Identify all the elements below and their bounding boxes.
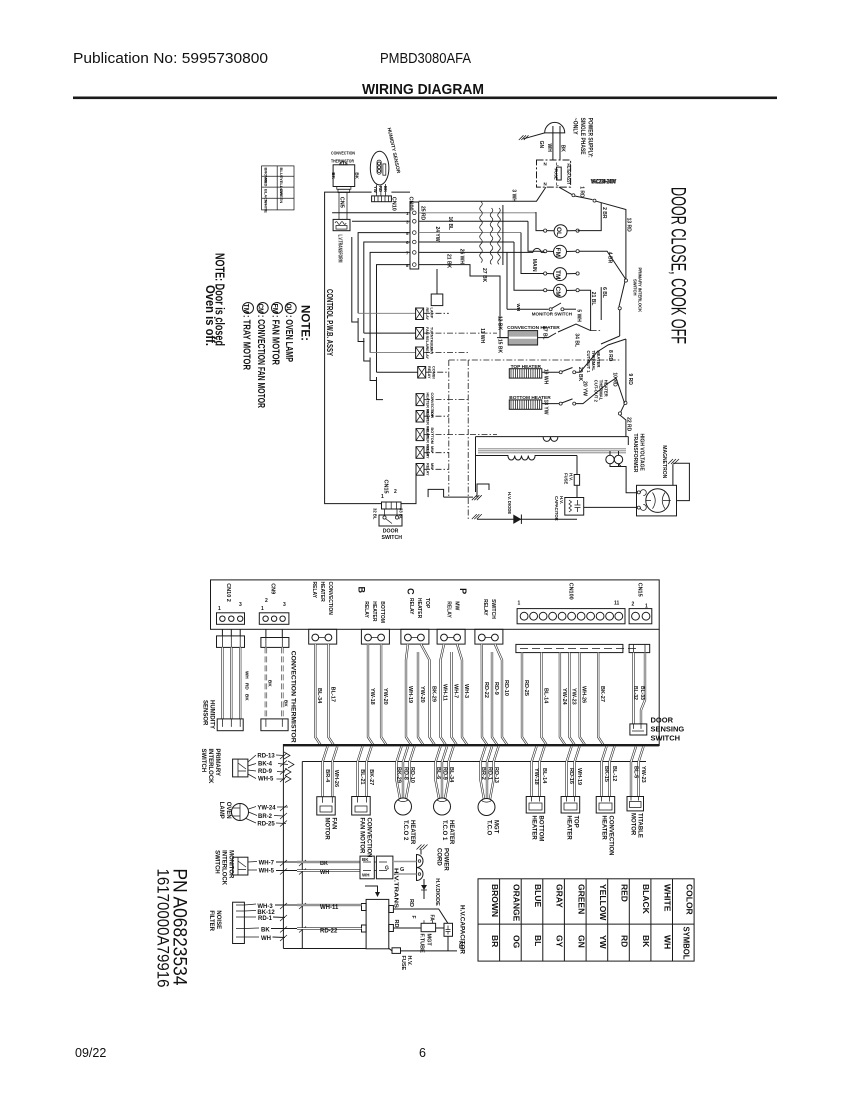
monitor switch (507, 303, 582, 322)
svg-text:Oven is off.: Oven is off. (203, 285, 217, 346)
hv capacitor lower (444, 923, 453, 936)
svg-text:RED: RED (620, 884, 630, 902)
svg-text:WH-26: WH-26 (333, 770, 339, 787)
svg-text:WH-5: WH-5 (258, 777, 274, 783)
oven lamp (218, 802, 288, 828)
svg-text:FA: FA (429, 915, 435, 922)
svg-text:WH-7: WH-7 (453, 684, 459, 698)
svg-text:N: N (544, 182, 547, 187)
relay X boxes right edge (416, 308, 436, 476)
below-bus feeds: fan motor (323, 746, 338, 796)
svg-text:LAMP: LAMP (218, 802, 224, 819)
svg-text:CUT-OUT 1: CUT-OUT 1 (586, 351, 591, 374)
relay pin box 4 (437, 629, 465, 644)
svg-text:24 YW: 24 YW (434, 227, 440, 242)
svg-text:WH-19: WH-19 (407, 686, 413, 703)
svg-text:09/22: 09/22 (75, 1046, 106, 1060)
door sensing header (629, 644, 650, 652)
svg-text:NOTE:: NOTE: (299, 305, 313, 341)
svg-text:CORD: CORD (436, 848, 442, 866)
svg-text:RD-9: RD-9 (258, 769, 273, 775)
svg-text:BK-15: BK-15 (603, 766, 609, 782)
svg-text:1: 1 (218, 606, 221, 612)
svg-text:RD-13: RD-13 (257, 754, 275, 760)
svg-text:YELLOW: YELLOW (598, 884, 608, 921)
bottom heater feeds (532, 746, 545, 796)
wire CN00 pin1 left (332, 212, 410, 214)
svg-text:FM: FM (554, 248, 561, 257)
CN15 connector lower (629, 583, 652, 624)
mgt tco feeds (481, 746, 499, 799)
svg-text:RD-22: RD-22 (483, 682, 489, 698)
svg-text:T.C.O: T.C.O (486, 820, 492, 836)
svg-text:16170000A79916: 16170000A79916 (154, 869, 173, 988)
svg-text:G: G (385, 866, 389, 872)
svg-text:MAGNETRON: MAGNETRON (661, 445, 667, 478)
svg-text:GY: GY (555, 935, 565, 948)
svg-text:CONVECTION HEATER: CONVECTION HEATER (507, 325, 560, 331)
svg-text:BK: BK (320, 861, 328, 867)
CN100 pin header bar (516, 644, 636, 652)
svg-text:YW-18: YW-18 (369, 688, 375, 705)
svg-text:2: 2 (632, 602, 635, 608)
svg-text:RD-13: RD-13 (493, 767, 499, 783)
svg-text:18 YW: 18 YW (543, 400, 549, 415)
svg-text:RELAY: RELAY (446, 601, 452, 618)
svg-text:GN: GN (577, 935, 587, 948)
filter assy box (537, 160, 572, 187)
humidity sensor bottom box (217, 719, 243, 731)
svg-text:8: 8 (406, 263, 409, 268)
svg-text:TM: TM (554, 270, 561, 279)
relay coil wires (358, 313, 416, 352)
power cord plug (417, 855, 424, 881)
svg-text:7: 7 (406, 251, 409, 256)
hv fuse lower (389, 936, 457, 951)
choke coils on supply wires (419, 202, 546, 338)
svg-text:RD-22: RD-22 (320, 929, 338, 935)
svg-text:26 WH: 26 WH (459, 249, 465, 265)
svg-text:BL-32: BL-32 (632, 686, 638, 700)
svg-text:1: 1 (406, 211, 409, 216)
svg-text:RD-25: RD-25 (523, 680, 529, 696)
svg-text:BK: BK (331, 172, 336, 179)
svg-text:SWITCH: SWITCH (214, 850, 220, 874)
chassis ground at plug (519, 133, 545, 149)
svg-text:CN5: CN5 (339, 197, 345, 208)
svg-text:BROWN: BROWN (490, 884, 500, 917)
power plug (545, 122, 565, 160)
svg-text:RD: RD (408, 899, 414, 907)
svg-text:15 BK: 15 BK (497, 339, 503, 354)
svg-text:RD: RD (245, 683, 250, 690)
svg-text:WHITE: WHITE (663, 884, 673, 912)
top heater relay (416, 410, 434, 439)
combi relay (418, 366, 436, 379)
svg-text:5: 5 (406, 231, 409, 236)
L.V. transformer (333, 219, 350, 262)
svg-text:VAC230-240V: VAC230-240V (591, 180, 616, 186)
svg-text:3: 3 (406, 220, 409, 225)
terminal box BK WH (360, 856, 374, 879)
svg-text:RELAY: RELAY (363, 601, 369, 618)
svg-text:MOTOR: MOTOR (630, 813, 636, 836)
turntable fan relay (416, 327, 434, 350)
svg-text:H.V.DIODE: H.V.DIODE (434, 878, 440, 906)
wire filter to left bus 3 WH (419, 187, 546, 201)
hv fuse (564, 456, 580, 498)
svg-text:WH: WH (261, 936, 271, 942)
oven lamp circle OL (544, 225, 580, 238)
svg-text:L.V.TRANSFORM: L.V.TRANSFORM (337, 235, 343, 263)
svg-text:CN10 2: CN10 2 (225, 583, 231, 602)
svg-text:CONVECTION THERMISTOR: CONVECTION THERMISTOR (290, 651, 297, 743)
svg-text:3: 3 (239, 602, 242, 608)
thermistor top connector (261, 638, 289, 648)
thermistor bottom box (261, 719, 288, 731)
svg-text:16 BL: 16 BL (447, 217, 453, 231)
svg-text:BL-6: BL-6 (435, 767, 441, 779)
NOTE: Door is closed / Oven is off. (203, 253, 227, 346)
bottom section (211, 580, 660, 653)
svg-text:BK: BK (268, 680, 273, 687)
svg-text:OL: OL (285, 304, 294, 313)
svg-text:YW-23: YW-23 (570, 688, 576, 705)
svg-text:12 BK: 12 BK (497, 316, 503, 331)
svg-text:YW: YW (598, 935, 608, 950)
svg-text:TM: TM (242, 304, 251, 314)
svg-text:P: P (458, 588, 468, 594)
wh-11 rd-22 wires (297, 905, 362, 929)
svg-text:BK-27: BK-27 (599, 686, 605, 702)
svg-text:INTERLOCK: INTERLOCK (221, 850, 227, 886)
svg-text:6: 6 (419, 1046, 426, 1060)
svg-text:13 RD: 13 RD (626, 218, 632, 233)
hv trans box (366, 899, 389, 948)
svg-text:RD: RD (620, 935, 630, 947)
footer (75, 1046, 426, 1060)
heater tco 2 (395, 798, 412, 815)
svg-text:TOP: TOP (424, 598, 430, 609)
inner verticals control box (436, 269, 438, 294)
svg-text:1: 1 (381, 494, 384, 500)
relay pin box 1 (309, 629, 337, 644)
svg-text:F.TUBE: F.TUBE (419, 934, 425, 954)
CN00 connector strip (406, 197, 419, 270)
door sensing wires (634, 653, 646, 724)
svg-text:RD-1: RD-1 (258, 916, 273, 922)
hv wiring lower (393, 927, 444, 929)
svg-text:DOOR: DOOR (383, 529, 399, 535)
svg-text:FM: FM (271, 304, 280, 314)
svg-text:CN100: CN100 (568, 583, 574, 600)
svg-text:22 RD: 22 RD (626, 417, 632, 432)
svg-text:BK: BK (362, 857, 369, 862)
svg-text:WH: WH (516, 304, 521, 312)
junction to transformer (618, 339, 631, 437)
svg-text:BK: BK (284, 700, 289, 707)
grounds near hv (428, 484, 489, 519)
svg-text:OG: OG (512, 935, 522, 949)
svg-text:WH-3: WH-3 (463, 684, 469, 698)
legend TM tray motor (243, 303, 254, 314)
svg-text:CONVECTION: CONVECTION (327, 582, 333, 616)
rd wire to capacitor (393, 909, 448, 923)
CN100 wires down (315, 644, 320, 744)
svg-text:YW-24: YW-24 (561, 688, 567, 706)
bottom heater relay (416, 428, 434, 457)
svg-text:CAPACITOR: CAPACITOR (554, 496, 559, 521)
svg-text:MONITOR SWITCH: MONITOR SWITCH (532, 311, 572, 316)
lamp relay (416, 308, 434, 321)
svg-text:RD-8: RD-8 (403, 767, 409, 780)
svg-text:RD-16: RD-16 (568, 768, 574, 784)
dash-dot cavity lines (448, 360, 450, 497)
svg-text:BL-34: BL-34 (448, 767, 454, 783)
hv capacitor (554, 496, 584, 521)
svg-text:N: N (544, 162, 547, 167)
svg-text:BL-34: BL-34 (316, 688, 322, 704)
svg-text:1 RD: 1 RD (579, 186, 585, 198)
svg-text:POWER: POWER (443, 848, 449, 871)
door switch (373, 508, 404, 541)
door sensing switch (630, 724, 647, 735)
mgt f.tube (421, 923, 436, 931)
svg-text:WH-7: WH-7 (259, 860, 275, 866)
svg-text:RD-10: RD-10 (503, 680, 509, 696)
svg-text:WIRING DIAGRAM: WIRING DIAGRAM (362, 81, 484, 98)
svg-text:G: G (400, 867, 404, 873)
svg-text:GREEN: GREEN (577, 884, 587, 914)
fan motor circle FM (544, 245, 626, 279)
svg-text:19 WH: 19 WH (543, 369, 549, 385)
svg-text:BR: BR (490, 935, 500, 947)
svg-text:RD-1: RD-1 (487, 767, 493, 780)
svg-text:27 BK: 27 BK (481, 268, 487, 283)
svg-text:L: L (556, 162, 559, 167)
svg-text:HUMIDITY: HUMIDITY (209, 700, 215, 729)
svg-text:6: 6 (406, 240, 409, 245)
svg-text:RD-25: RD-25 (257, 822, 275, 828)
svg-text:CN15: CN15 (383, 480, 389, 494)
svg-text:CM: CM (554, 287, 561, 297)
svg-text:NOISE: NOISE (215, 910, 221, 929)
svg-text:BOTTOM: BOTTOM (538, 816, 544, 842)
svg-text:21 BL: 21 BL (590, 292, 596, 306)
svg-text:FAN: FAN (331, 818, 337, 830)
relay pin box 3 (401, 629, 429, 644)
svg-text:BOTTOM: BOTTOM (379, 601, 385, 623)
svg-text:CONTROL P.W.B. ASSY: CONTROL P.W.B. ASSY (325, 289, 334, 356)
svg-text:6 BL: 6 BL (601, 287, 607, 298)
svg-text:WH: WH (663, 935, 673, 949)
svg-text:BK: BK (355, 172, 360, 179)
svg-text:SYMBOL: SYMBOL (682, 927, 692, 960)
convection heater lower (596, 797, 615, 814)
heater tco1 feeds (436, 746, 454, 798)
control PWB assy box outline (325, 192, 416, 504)
svg-text:YW-18: YW-18 (533, 768, 539, 785)
mw relay 2 (416, 463, 434, 476)
svg-text:1: 1 (518, 601, 521, 607)
svg-text:HEATER: HEATER (601, 816, 607, 841)
CN100 connector (517, 583, 625, 624)
svg-text:WH: WH (245, 671, 250, 679)
21 BL / 6 BL wires (579, 287, 607, 331)
top schematic (203, 127, 443, 541)
thermistor wires (266, 647, 282, 719)
svg-text:HIGH VOLTAGE: HIGH VOLTAGE (639, 434, 645, 472)
relay pin box 5 (475, 629, 503, 644)
svg-text:5 WH: 5 WH (576, 309, 582, 322)
svg-text:YW-24: YW-24 (257, 806, 276, 812)
svg-text:FUSE: FUSE (400, 956, 406, 971)
svg-text:BL-21: BL-21 (359, 769, 365, 784)
svg-text:CONVECTION: CONVECTION (366, 818, 372, 858)
convection heater (479, 316, 620, 354)
svg-text:33 BL: 33 BL (399, 508, 404, 520)
svg-text:BL: BL (533, 935, 543, 946)
svg-text:2: 2 (265, 598, 268, 604)
svg-text:BR-2: BR-2 (480, 767, 486, 780)
svg-text:YW-23: YW-23 (640, 766, 646, 783)
heater tco2 feeds (397, 746, 415, 798)
svg-text:25 RD: 25 RD (420, 206, 426, 221)
svg-text:CN15: CN15 (637, 583, 643, 597)
svg-text:1: 1 (261, 606, 264, 612)
svg-text:BK: BK (560, 145, 566, 153)
main pcb connector box (211, 580, 660, 629)
svg-text:WH-3: WH-3 (257, 904, 273, 910)
svg-text:SWITCH: SWITCH (490, 599, 496, 619)
svg-text:RELAY: RELAY (408, 598, 414, 615)
svg-text:CN10: CN10 (391, 197, 397, 211)
svg-text:HEATER: HEATER (371, 601, 377, 622)
svg-text:HEATER: HEATER (531, 816, 537, 841)
svg-text:10 RD: 10 RD (612, 372, 618, 387)
fan motor (317, 797, 335, 815)
svg-text:RD-10: RD-10 (409, 767, 415, 783)
svg-text:SENSOR: SENSOR (202, 700, 208, 726)
svg-text:H.V. DIODE: H.V. DIODE (507, 492, 512, 514)
svg-text:34 BL: 34 BL (574, 333, 580, 347)
svg-text:MGT: MGT (426, 934, 432, 947)
hv wiring (576, 492, 578, 498)
svg-text:11: 11 (614, 601, 620, 607)
switch relay label (482, 599, 496, 619)
svg-text:BK: BK (261, 928, 270, 934)
svg-text:DOOR CLOSE, COOK OFF: DOOR CLOSE, COOK OFF (667, 187, 690, 344)
svg-text:FAN RELAY: FAN RELAY (425, 327, 429, 349)
svg-text:BK-29: BK-29 (396, 767, 402, 783)
svg-text:BL-33: BL-33 (639, 686, 645, 700)
conv fan motor feeds (358, 746, 372, 796)
svg-text:INTERLOCK: INTERLOCK (207, 749, 213, 785)
2 BR wire to OL (578, 203, 607, 231)
svg-text:FILTER ASSY: FILTER ASSY (565, 164, 571, 185)
svg-text:MW: MW (430, 446, 434, 453)
svg-text:RED: RED (264, 178, 269, 187)
CN10 connector (372, 196, 397, 211)
svg-text:SENSING: SENSING (651, 725, 685, 734)
arrow into hv trans (365, 886, 378, 892)
color table (478, 879, 695, 961)
svg-text:OL: OL (555, 227, 562, 236)
svg-text:OVEN: OVEN (225, 802, 231, 819)
svg-text:HEATER: HEATER (319, 582, 325, 603)
svg-text:SWITCH: SWITCH (633, 279, 638, 296)
svg-text:21 BK: 21 BK (446, 254, 452, 269)
svg-text:WH-19: WH-19 (576, 768, 582, 785)
bottom heater relay label (363, 601, 385, 623)
svg-text:BOTTOM: BOTTOM (430, 428, 434, 444)
svg-text:3: 3 (283, 602, 286, 608)
svg-text:WH: WH (546, 144, 552, 153)
mw relay 1 (416, 446, 434, 459)
svg-text:TRANSFORMER: TRANSFORMER (632, 434, 638, 473)
legend FM fan motor (272, 303, 283, 314)
wire filter to 1 RD switch (559, 186, 632, 279)
svg-text:DOOR: DOOR (651, 716, 674, 725)
svg-text:RELAY: RELAY (482, 599, 488, 616)
svg-text:FAN: FAN (430, 347, 434, 355)
svg-text:HEATER: HEATER (448, 820, 454, 845)
CN9 connector (259, 583, 289, 624)
relay pin box 2 (361, 629, 389, 644)
svg-text:MOTOR: MOTOR (324, 818, 330, 841)
header rule (73, 97, 777, 100)
svg-text:TITABLE: TITABLE (637, 813, 643, 838)
svg-text:WH-26: WH-26 (581, 686, 587, 703)
svg-text:HEATER: HEATER (566, 816, 572, 841)
svg-text:WHITE: WHITE (264, 200, 269, 213)
svg-text:9 RD: 9 RD (627, 374, 633, 386)
svg-text:MGT: MGT (493, 820, 499, 834)
svg-text:WH-5: WH-5 (259, 869, 275, 875)
svg-text:BK-27: BK-27 (368, 769, 374, 785)
svg-text:TOP: TOP (573, 816, 579, 828)
svg-text:FUSE: FUSE (554, 169, 559, 180)
svg-text:32 BL: 32 BL (373, 508, 378, 520)
svg-text:T.C.O 2: T.C.O 2 (402, 820, 408, 841)
svg-text:CN00: CN00 (408, 197, 414, 211)
svg-text:SWITCH: SWITCH (382, 535, 403, 541)
svg-text:FAN MOTOR: FAN MOTOR (359, 818, 365, 855)
bottom heater (509, 372, 633, 414)
svg-text:BK-4: BK-4 (258, 762, 273, 768)
top heater (561, 797, 580, 814)
left enclosure verticals (282, 744, 284, 949)
primary interlock switch (200, 749, 294, 785)
humidity sensor (370, 127, 401, 185)
heater tco 1 (434, 798, 451, 815)
svg-text:CUT-OUT 2: CUT-OUT 2 (594, 380, 599, 403)
svg-text:CONVECTION: CONVECTION (331, 151, 355, 157)
svg-text:HEATER: HEATER (409, 820, 415, 845)
svg-text:2: 2 (394, 489, 397, 495)
svg-text:BL-12: BL-12 (611, 766, 617, 781)
convection fan motor (352, 797, 371, 816)
left return staircase (352, 237, 383, 400)
svg-text:FUSE: FUSE (564, 473, 569, 484)
monitor wires to terminal boxes (297, 862, 360, 871)
svg-text:BLACK: BLACK (641, 884, 651, 915)
tray motor circle TM (544, 268, 580, 281)
svg-text:RD: RD (393, 920, 399, 928)
svg-text:RD: RD (378, 186, 383, 192)
header (73, 51, 777, 99)
svg-text:BL-5: BL-5 (633, 766, 639, 778)
